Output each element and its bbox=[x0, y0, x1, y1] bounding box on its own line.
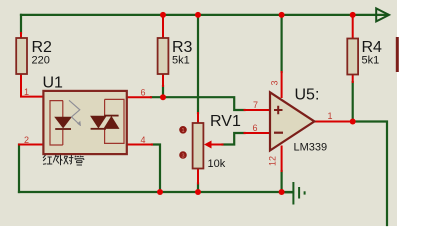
svg-text:220: 220 bbox=[32, 55, 50, 67]
wire R2 top vertical bbox=[20, 15, 22, 33]
lead U5 pin1 output bbox=[313, 121, 353, 123]
stray component bar at right margin bbox=[396, 37, 399, 72]
svg-text:6: 6 bbox=[252, 123, 257, 133]
op-amp plus bbox=[274, 106, 283, 114]
lead R3 top bbox=[162, 16, 164, 38]
svg-text:LM339: LM339 bbox=[294, 142, 328, 154]
svg-text:R4: R4 bbox=[362, 39, 383, 56]
RV1 wiper arrowhead bbox=[204, 141, 212, 149]
svg-text:7: 7 bbox=[253, 100, 258, 110]
wire U5 pin3 vertical bbox=[281, 15, 283, 72]
svg-text:10k: 10k bbox=[208, 158, 226, 170]
wire left vertical pin2 down bbox=[18, 145, 20, 193]
svg-text:2: 2 bbox=[24, 135, 29, 145]
svg-text:4: 4 bbox=[140, 135, 145, 145]
wire R3 bottom green bbox=[162, 86, 164, 97]
U1 photo triac triangles bbox=[91, 116, 106, 127]
label hongwai duiguan (CJK strokes) bbox=[43, 155, 84, 166]
svg-text:3: 3 bbox=[270, 80, 280, 85]
potentiometer RV1 body bbox=[193, 123, 204, 169]
lead RV1 top bbox=[197, 113, 199, 123]
wire U5 pin12 green bbox=[281, 171, 283, 192]
junction top R3 bbox=[160, 12, 166, 18]
svg-text:1: 1 bbox=[327, 111, 332, 121]
lead R4 top bbox=[352, 16, 354, 39]
junction top U5 pin3 bbox=[279, 12, 285, 18]
RV1 pin circle 2 bbox=[179, 151, 187, 159]
svg-text:R3: R3 bbox=[172, 39, 193, 56]
junction U1 pin6 / R3 bbox=[160, 94, 166, 100]
output terminal arrow bbox=[376, 8, 389, 21]
lead U5 pin7 bbox=[245, 109, 270, 111]
RV1 pin circle 1 bbox=[179, 126, 187, 134]
wire RV1 bottom green bbox=[197, 184, 199, 193]
lead U1 pin4 bbox=[127, 144, 152, 146]
svg-text:U5:: U5: bbox=[295, 87, 320, 104]
junction top RV1 bbox=[195, 12, 201, 18]
svg-text:1: 1 bbox=[181, 128, 184, 134]
lead U5 pin12 bbox=[281, 147, 283, 172]
junction top R4 bbox=[350, 12, 356, 18]
junction ground RV1 bbox=[195, 189, 201, 195]
svg-text:3: 3 bbox=[181, 153, 184, 159]
svg-text:5k1: 5k1 bbox=[362, 55, 380, 67]
svg-text:5k1: 5k1 bbox=[172, 55, 190, 67]
svg-text:U1: U1 bbox=[43, 75, 64, 92]
char wai bbox=[53, 155, 62, 166]
U1 LED inner loop bbox=[50, 101, 63, 145]
wire U1 pin6 to R3 node to U5 pin7 bbox=[151, 97, 245, 110]
op-amp U5 triangle bbox=[270, 92, 314, 150]
opto U1 box bbox=[43, 91, 126, 154]
wire output to right edge down bbox=[353, 122, 387, 226]
char guan bbox=[75, 156, 85, 165]
svg-text:R2: R2 bbox=[32, 39, 53, 56]
resistor R4 body bbox=[347, 39, 358, 75]
U1 light zigzag bbox=[69, 100, 81, 125]
ground bbox=[282, 182, 305, 205]
wire top bus bbox=[21, 14, 388, 16]
lead R4 bottom bbox=[352, 75, 354, 83]
char hong bbox=[43, 155, 52, 164]
U1 LED diode bbox=[55, 117, 71, 127]
U1 photo element inner loop bbox=[105, 99, 124, 143]
wire RV1 wiper to U5 pin6 bbox=[223, 133, 245, 145]
svg-text:RV1: RV1 bbox=[210, 113, 241, 130]
junction output node bbox=[350, 119, 356, 125]
lead U5 pin3 bbox=[281, 72, 283, 97]
svg-text:1: 1 bbox=[24, 87, 29, 97]
wire RV1 top vertical bbox=[197, 15, 199, 113]
char dui bbox=[64, 155, 74, 164]
lead R2 top bbox=[20, 33, 22, 38]
lead U5 pin6 bbox=[245, 132, 270, 134]
lead R2 bottom to U1 pin1 bbox=[21, 74, 43, 97]
wire R4 bottom green bbox=[352, 82, 354, 122]
op-amp minus bbox=[274, 132, 283, 134]
lead RV1 bottom bbox=[197, 169, 199, 184]
resistor R3 body bbox=[158, 38, 169, 74]
lead U1 pin6 bbox=[127, 96, 151, 98]
lead R3 bottom bbox=[162, 74, 164, 86]
resistor R2 body bbox=[16, 38, 27, 74]
junction ground U1 pin4 bbox=[157, 189, 163, 195]
junction ground U5 pin12 bbox=[279, 189, 285, 195]
wire U1 pin4 corner bbox=[152, 145, 160, 193]
svg-text:12: 12 bbox=[268, 156, 278, 166]
wire bottom ground bus bbox=[19, 191, 293, 193]
lead RV1 wiper bbox=[209, 144, 223, 146]
svg-text:6: 6 bbox=[140, 88, 145, 98]
lead U1 pin2 bbox=[19, 144, 43, 146]
